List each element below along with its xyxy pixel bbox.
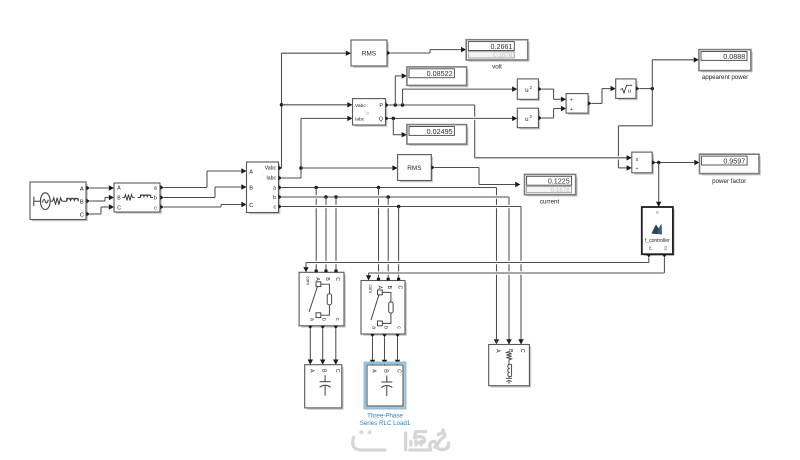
svg-text:C: C [249,203,253,209]
svg-text:A: A [308,369,314,373]
svg-text:power factor: power factor [712,178,746,185]
svg-text:a: a [273,185,276,191]
three-phase breaker 2 [363,283,406,335]
svg-text:0.02495: 0.02495 [427,127,453,136]
svg-text:RMS: RMS [407,165,421,172]
wire branch c to VI C [164,206,221,208]
wire Iabc to power block and RMS2 [282,177,301,179]
svg-text:C: C [397,285,403,289]
svg-text:com: com [305,276,310,285]
wire controller out1 to breaker1 com [648,258,650,263]
svg-text:A: A [371,369,377,373]
wire c down to load3 C [520,207,522,261]
three-phase series RLC branch (right) [491,347,530,387]
math function u^2 block 2 [520,110,540,128]
junction b to breaker2 B [386,195,390,199]
svg-text:C: C [80,212,84,218]
three-phase V-I measurement block [249,164,280,213]
wire RMS1 to volt display [391,52,431,54]
junction Vabc to power [280,103,284,107]
svg-text:u: u [525,116,529,123]
wires breaker1 to load1 [309,329,311,359]
svg-text:Iabc: Iabc [266,176,276,182]
three-phase series RLC branch block [116,185,161,213]
svg-text:B: B [80,199,84,205]
junction Iabc to RMS2 [299,166,303,170]
svg-text:volt: volt [492,63,502,70]
svg-text:B: B [117,196,121,202]
svg-text:A: A [117,186,121,192]
three-phase series RLC load1 selected [365,363,405,408]
junction b to breaker1 B [324,195,328,199]
svg-text:0.2661: 0.2661 [491,42,513,51]
watermark khamsat [353,432,449,450]
divide block [634,154,653,173]
branch P to display 0.08522 [394,76,396,105]
svg-text:B: B [249,185,253,191]
wire sqrt to apparent power display and divide [640,88,653,90]
junction b to breaker1 C [334,195,338,199]
junction a to breaker1 A [314,186,318,190]
svg-text:A: A [495,349,501,353]
svg-text:Vabc: Vabc [265,165,277,171]
wire c phase [282,206,521,208]
svg-text:0.1225: 0.1225 [548,177,570,186]
wire a phase [282,187,497,189]
svg-text:Q: Q [379,116,383,122]
svg-text:b1: b1 [663,246,667,250]
wire b phase [282,196,509,198]
svg-text:B: B [386,286,392,290]
svg-text:RMS: RMS [362,50,376,57]
power (PQ) block [355,101,387,126]
svg-text:Vabc: Vabc [355,103,366,109]
svg-text:b: b [154,196,157,202]
svg-text:A: A [249,169,253,175]
svg-text:b: b [321,318,327,321]
svg-text:current: current [540,199,560,206]
svg-text:f_controller: f_controller [645,238,670,244]
svg-text:0.9597: 0.9597 [723,157,745,166]
svg-text:⋮: ⋮ [261,171,265,176]
display volt 0.2661 [468,42,528,61]
wire source B to branch B [90,200,105,202]
wire divide to power factor display and controller [656,162,695,164]
display 0.1225 current [527,177,577,196]
svg-text:Series RLC Load1: Series RLC Load1 [360,420,411,427]
wire u2#2 to sum [542,117,554,119]
svg-text:A: A [314,277,320,281]
svg-text:A: A [377,286,383,290]
svg-text:÷: ÷ [636,167,639,173]
svg-text:C: C [334,277,340,281]
branch P to u2 block 1 [402,89,404,105]
wire Q to u2 block 2 and display 0.02495 [389,117,512,119]
three-phase breaker 1 [301,275,345,327]
svg-text:c: c [334,318,340,321]
RMS2 block [400,157,432,182]
svg-text:u: u [525,87,529,94]
svg-text:c: c [154,205,157,211]
svg-text:0.1678: 0.1678 [493,52,513,59]
svg-text:3φ: 3φ [364,111,369,116]
svg-text:a: a [371,326,377,329]
wire RMS2 to current display [435,167,479,169]
svg-text:b: b [273,195,276,201]
junction c to breaker2 C [397,205,401,209]
math function u^2 block 1 [520,81,540,100]
svg-text:0.0888: 0.0888 [723,52,745,61]
svg-text:A: A [80,186,84,192]
svg-text:C: C [334,369,340,373]
MATLAB function controller block [644,209,674,255]
display 0.02495 [409,127,467,145]
wires breaker2 to load2 [372,337,374,359]
svg-text:C: C [396,369,402,373]
wire b down to load3 B [508,197,510,205]
wire u2#1 to sum [542,88,554,90]
wire branch a to VI A [164,187,207,189]
wire P to displays, u2, divide [389,104,475,106]
sum (add) block [568,96,589,114]
svg-text:B: B [321,369,327,373]
display 0.0888 apparent power [701,52,752,72]
display 0.08522 [409,69,467,86]
svg-text:appearent power: appearent power [702,74,748,81]
wire Vabc to RMS1 and power block [281,167,284,169]
svg-text:u: u [628,88,631,94]
wire sum to sqrt [592,102,602,104]
svg-text:c: c [396,326,402,329]
RMS1 block [353,42,388,67]
three-phase source block [32,184,87,220]
wire source C to branch C [90,213,101,215]
three-phase series RLC load 1 [307,367,343,409]
svg-text:com: com [368,284,373,293]
svg-text:a: a [308,318,314,321]
svg-text:B: B [324,277,330,281]
svg-text:0.1678: 0.1678 [551,187,571,194]
svg-text:C: C [117,205,121,211]
sqrt block [618,81,637,99]
wire branch b to VI B [164,197,215,199]
svg-text:a1: a1 [648,246,652,250]
svg-text:b: b [383,326,389,329]
wire a down to load3 A [496,188,498,196]
svg-text:Iabc: Iabc [355,116,365,122]
svg-text:+: + [570,107,573,113]
wire controller out2 to breaker2 com [663,258,665,273]
svg-text:P: P [379,103,383,109]
svg-text:C: C [519,349,525,353]
P down and right to divide [474,105,476,117]
wire source A to branch A [90,187,109,189]
svg-text:Three-Phase: Three-Phase [367,412,403,419]
svg-text:a: a [154,186,157,192]
svg-text:B: B [383,369,389,373]
svg-text:+: + [570,98,573,104]
svg-text:0.08522: 0.08522 [427,69,453,78]
display 0.9597 power factor [702,156,760,174]
junction a to breaker2 A [377,186,381,190]
